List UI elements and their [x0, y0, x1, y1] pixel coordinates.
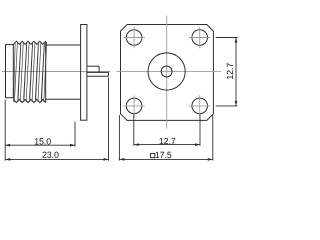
- mounting hole bottom-right: [189, 95, 210, 116]
- dim 12.7 bottom: [134, 138, 200, 146]
- mounting hole bottom-left: [123, 95, 144, 116]
- extension lines square sides: [119, 115, 212, 161]
- pin circle: [161, 66, 172, 77]
- dim 15.0: [5, 138, 75, 146]
- dim square 17.5: [119, 152, 212, 161]
- centerline side view: [2, 71, 110, 73]
- center pin: [87, 72, 109, 76]
- insulator step: [87, 66, 99, 72]
- mounting hole top-left: [123, 27, 144, 48]
- dim 12.7 vertical: [227, 38, 238, 106]
- connector body: [46, 45, 81, 99]
- vertical centerline front: [166, 16, 168, 129]
- horizontal centerline front: [117, 71, 222, 73]
- extension line pin end: [108, 78, 110, 161]
- mounting hole top-right: [189, 27, 210, 48]
- thread helix lines: [14, 42, 47, 102]
- square flange front: [121, 25, 214, 121]
- extension lines bottom holes: [134, 114, 200, 146]
- connector rear cap: [6, 44, 14, 97]
- coupling thread outline: [13, 41, 45, 102]
- extension line left end: [4, 100, 6, 161]
- dim 23.0: [5, 152, 108, 161]
- insulator circle: [148, 53, 185, 90]
- extension line flange face: [74, 122, 76, 147]
- flange side profile: [81, 25, 87, 121]
- extension lines right holes: [216, 38, 238, 106]
